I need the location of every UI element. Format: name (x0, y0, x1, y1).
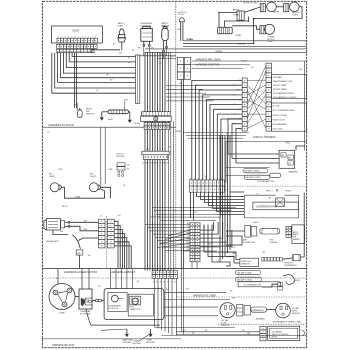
svg-text:GROUND: GROUND (146, 342, 155, 344)
connector wtr inlet (117, 163, 125, 166)
wire horizontals bottom (155, 327, 236, 329)
wires bundle to stair verticals crossing divider (166, 84, 199, 86)
section divider fz-door bottom (42, 126, 175, 128)
svg-text:TX1-FF TEMP: TX1-FF TEMP (273, 85, 288, 87)
svg-text:CAM-THERM COM: CAM-THERM COM (273, 80, 292, 83)
svg-text:COMP: COMP (59, 313, 66, 315)
svg-text:BK/WH: BK/WH (216, 51, 223, 53)
basepan pill (251, 307, 267, 312)
wires to damper (228, 153, 279, 155)
section divider horizontal main (42, 268, 306, 270)
svg-text:W2: W2 (171, 56, 174, 58)
connector icemaker strip (286, 226, 291, 237)
wire stair runs into display connector + down to strip (192, 80, 242, 180)
control board KEYB (51, 26, 102, 43)
pill W6 cord lower2 (235, 277, 261, 281)
wire labels left of display connector (233, 80, 242, 130)
wire verticals bottom middle (154, 279, 156, 328)
drain tube hook (283, 275, 294, 285)
amp connector pair (245, 225, 251, 237)
svg-text:W: W (153, 163, 155, 165)
svg-text:KEYB: KEYB (73, 30, 80, 33)
connector cabinet-wc row1 (152, 271, 177, 275)
wc-assy section bottom line (42, 338, 181, 340)
divider below harness labels (42, 277, 306, 279)
wire keyboard drops to mute switch area (74, 53, 76, 108)
connector cabinet-wc row2 (152, 275, 177, 279)
svg-text:B: B (174, 269, 175, 271)
board pin label row (56, 49, 94, 53)
svg-text:W4: W4 (186, 289, 189, 291)
wires right of auger connector (114, 221, 118, 268)
wires right of cabinet connector stepping (200, 222, 214, 230)
divider auger/cabinet (105, 216, 107, 269)
overload PTC relay assembly (79, 289, 92, 309)
svg-text:BK/WH: BK/WH (241, 61, 248, 63)
svg-text:B: B (167, 269, 168, 271)
box FZ thermistor bottom (238, 282, 280, 287)
wire compressor to ptc (75, 296, 79, 298)
svg-text:W4-HC2 DB: W4-HC2 DB (273, 119, 286, 121)
svg-text:B: B (164, 269, 165, 271)
divider alt power cord (218, 323, 307, 325)
plug alternate right (276, 303, 291, 318)
junction dots top-right (218, 12, 254, 45)
svg-text:GROUND: GROUND (123, 342, 132, 344)
cross bus horizontals in fz-door section (136, 55, 176, 57)
lamp FZ2 upper-left (267, 2, 277, 12)
svg-text:GN/YL: GN/YL (253, 222, 260, 224)
wire FZ1 loop (61, 187, 104, 198)
wire ptc bottom diagonal to base run (86, 309, 160, 325)
tiny labels left of cabinet connector (186, 223, 190, 251)
svg-text:YL: YL (187, 236, 189, 238)
svg-text:W6: W6 (224, 190, 227, 192)
terminal strip assembly (142, 112, 171, 116)
svg-text:TX3-FAN: TX3-FAN (273, 76, 282, 79)
box display labels group2 (272, 103, 307, 131)
svg-text:W3: W3 (146, 149, 149, 151)
svg-text:GN/YL: GN/YL (286, 191, 293, 193)
box fan motor FC bottom (128, 294, 153, 316)
thermal fuse diamond (276, 198, 285, 207)
svg-text:GROUND: GROUND (133, 343, 142, 345)
svg-text:BU/WH: BU/WH (216, 198, 223, 200)
terminal quick-connect right of ptc (92, 300, 96, 302)
svg-text:SERVICE: SERVICE (221, 325, 230, 327)
svg-text:W6-(B/P CORD): W6-(B/P CORD) (246, 177, 262, 179)
heater defrost (240, 258, 259, 266)
ground right of resistor (129, 112, 131, 119)
connector center mating strip labels (190, 178, 223, 180)
svg-text:TX4-DAMPER CLOSED: TX4-DAMPER CLOSED (273, 96, 297, 99)
connector cabinet col1 (190, 223, 195, 262)
svg-text:AUGER MTR: AUGER MTR (46, 240, 59, 243)
divider fz liner (176, 296, 307, 298)
crossing wires in display connector (247, 66, 266, 129)
labels above/below cabinet-wc connector (153, 269, 176, 271)
verticals from fz-door section to lights (100, 127, 102, 185)
svg-text:LT GR: LT GR (178, 14, 184, 16)
svg-text:W8: W8 (299, 69, 302, 71)
svg-text:W-BU: W-BU (237, 90, 242, 92)
motor damper (279, 150, 295, 168)
resistor defrost coil (261, 258, 282, 262)
svg-text:M3/BU: M3/BU (176, 131, 182, 133)
wire bundle left of evap section (219, 135, 221, 262)
outer border frame (42, 1, 306, 347)
wire cavity drops & cross bus (121, 49, 123, 50)
label W6 cord A pill (243, 169, 268, 173)
svg-text:PTC RELAY: PTC RELAY (80, 312, 91, 315)
box damper group outline (226, 141, 307, 183)
svg-text:W3-HC1 STAT: W3-HC1 STAT (273, 114, 288, 117)
wire coil legs (219, 12, 237, 27)
plug 115VAC left (220, 303, 235, 318)
svg-text:YL: YL (256, 193, 258, 195)
svg-text:R2/BN: R2/BN (187, 39, 193, 41)
svg-text:BK-YL: BK-YL (62, 206, 69, 208)
wire fan-out keyboard nested runs (52, 53, 136, 93)
connector center strip row2 (189, 186, 224, 192)
diagonal feed wires into cabinet connector (165, 233, 190, 239)
svg-text:B: B (156, 269, 157, 271)
svg-text:Y2/BN: Y2/BN (233, 15, 239, 17)
board pin numbers (58, 37, 96, 39)
svg-text:TX5-DAMPER OPEN: TX5-DAMPER OPEN (273, 92, 294, 95)
svg-text:LIGHT: LIGHT (117, 26, 124, 28)
box display labels group1 (272, 75, 307, 99)
svg-text:W6 (B/P CORD): W6 (B/P CORD) (244, 171, 259, 173)
wires exits below center strip (190, 192, 192, 218)
connector bits near drain (278, 283, 283, 286)
svg-text:W3: W3 (143, 163, 146, 165)
svg-text:FC MOTOR: FC MOTOR (108, 308, 119, 310)
wire loop evap fan (244, 195, 298, 218)
box automatic ice maker (292, 225, 305, 244)
lamp lower FZ (265, 24, 275, 34)
water valve connector stack (260, 326, 266, 340)
pill W6 cord lower1 (235, 270, 260, 274)
wire ref-liner right bus (191, 60, 306, 62)
wire divider to compressor top (57, 269, 59, 285)
svg-text:NOTE 8 LT GR: NOTE 8 LT GR (244, 3, 258, 5)
svg-text:W: W (132, 50, 134, 52)
wires bundle into cabinet connector (145, 223, 190, 225)
wires defrost (226, 252, 240, 260)
divider fz liner upper (225, 185, 307, 187)
pill FZ thermistor upper (270, 173, 281, 177)
board connector row 2 (57, 44, 97, 48)
wires cabinet connector to evap right (204, 225, 236, 253)
svg-text:YL: YL (160, 163, 162, 165)
svg-text:TEST J: TEST J (266, 191, 273, 193)
svg-text:CAPACITOR: CAPACITOR (130, 308, 141, 311)
connector center strip row1 (189, 180, 224, 186)
svg-text:LIGHT: LIGHT (292, 14, 299, 16)
svg-text:R2/WH: R2/WH (273, 12, 280, 14)
wire verticals right of bundle (167, 52, 169, 111)
box water valve solenoid (268, 326, 300, 340)
hook arrow right (302, 330, 305, 336)
svg-text:CONNECTOR: CONNECTOR (243, 242, 256, 244)
pin label texts (57, 51, 95, 53)
connector cabinet col2 (195, 223, 200, 262)
wires divider to condenser box (110, 269, 112, 289)
connector ref-liner col2 (184, 57, 190, 79)
svg-text:BASEPAN (L): BASEPAN (L) (252, 309, 264, 312)
svg-text:FZ THERMISTOR: FZ THERMISTOR (244, 285, 262, 287)
svg-text:B: B (171, 269, 172, 271)
svg-text:B: B (160, 269, 161, 271)
svg-text:HARNESS-FZ LINER: HARNESS-FZ LINER (193, 294, 216, 297)
wires evap section left connects (230, 191, 244, 193)
svg-text:B: B (153, 269, 154, 271)
svg-text:WTR INL: WTR INL (116, 156, 125, 158)
svg-text:Y7/BK: Y7/BK (75, 196, 81, 198)
connector display left col (242, 78, 247, 131)
svg-text:GN/YL: GN/YL (230, 247, 235, 249)
ground comp bottom (150, 329, 152, 333)
bus lines upper right to left (183, 40, 307, 42)
svg-text:ALTERNATE POWER CORD: ALTERNATE POWER CORD (273, 321, 302, 324)
wires top-right routing (244, 7, 260, 12)
wire stair lower three to damper (228, 119, 242, 154)
svg-text:W6: W6 (268, 198, 271, 200)
svg-text:DISPLAY HARNESS: DISPLAY HARNESS (253, 136, 276, 139)
svg-text:(Y): (Y) (288, 163, 291, 165)
labels under bar (143, 163, 170, 165)
wires compressor internal Y (58, 291, 67, 293)
wires below display connector going left (183, 132, 249, 134)
svg-text:BK/YE: BK/YE (272, 336, 278, 338)
svg-text:W6 (B/P CORD): W6 (B/P CORD) (237, 273, 252, 275)
svg-text:FZ THERMISTOR: FZ THERMISTOR (257, 181, 274, 183)
horizontals at 61-68 right (191, 64, 250, 66)
wires out condenser right (164, 291, 226, 293)
svg-text:HARNESS-WC ASSY: HARNESS-WC ASSY (52, 344, 75, 347)
svg-text:NOTE7 SW: NOTE7 SW (150, 216, 160, 218)
svg-text:12: 12 (100, 216, 102, 218)
motor auger MTR (47, 219, 61, 231)
svg-text:A-RIBBED: A-RIBBED (256, 318, 266, 321)
wire keyboard pin B right (92, 50, 120, 53)
svg-text:Y3: Y3 (74, 104, 76, 106)
ground base pan (126, 329, 128, 333)
svg-text:BT2-HEATER: BT2-HEATER (273, 123, 287, 126)
horizontals above cabinet connector (152, 207, 236, 209)
svg-text:HARNESS-CABINET: HARNESS-CABINET (111, 270, 136, 274)
lamp FZ2 upper-right (290, 2, 300, 12)
svg-text:TERMINATOR: TERMINATOR (284, 264, 297, 267)
svg-text:Y3/BN: Y3/BN (235, 35, 241, 37)
board connector row 1 (57, 38, 97, 43)
wire right edge vertical (304, 61, 306, 150)
svg-text:HARNESS-FZ DOOR: HARNESS-FZ DOOR (49, 123, 74, 127)
connector auger-cabinet left (98, 219, 105, 248)
svg-text:SWITCH: SWITCH (86, 113, 95, 115)
svg-text:NOTE7: NOTE7 (134, 123, 140, 125)
ribbon cable bus bar (136, 55, 140, 103)
wire diagonal comp ground (138, 334, 151, 342)
compressor COMP (49, 284, 75, 310)
coil winding component (218, 27, 233, 34)
drops below cabinet connector (191, 262, 193, 269)
svg-text:TX2-FZ TEMP: TX2-FZ TEMP (273, 89, 288, 91)
svg-text:W6-(B/P CORD): W6-(B/P CORD) (237, 280, 252, 282)
svg-text:DAMPER: DAMPER (289, 170, 298, 173)
condenser fan box (104, 289, 164, 320)
svg-text:W-R: W-R (124, 100, 129, 102)
wire bundle middle verticals (144, 52, 146, 270)
ground left of resistor (100, 116, 103, 121)
svg-text:HARNESS-AUGER MOTOR: HARNESS-AUGER MOTOR (64, 270, 97, 274)
svg-text:YL: YL (233, 95, 235, 97)
horizontals crossing at 245-262 (183, 246, 220, 248)
svg-text:LIGHT: LIGHT (90, 176, 97, 178)
svg-text:W1 L2 IN): W1 L2 IN) (273, 129, 283, 131)
wires into water valve (176, 331, 260, 333)
svg-text:Y2R/Y3R: Y2R/Y3R (237, 44, 246, 46)
svg-text:EVAPORATOR FAN: EVAPORATOR FAN (257, 206, 278, 209)
misc wire labels texture (47, 53, 302, 336)
box evaporator fan (253, 202, 299, 210)
basepan connector blocks (237, 304, 243, 316)
svg-text:LIGHT: LIGHT (49, 176, 56, 178)
defrost terminator (292, 255, 300, 261)
wire pair ref liner to water valve (180, 269, 182, 332)
connector ref-liner col1 (177, 57, 183, 79)
svg-text:W3: W3 (138, 48, 141, 50)
connector auger-cabinet right (108, 219, 115, 248)
svg-text:SERVICE: SERVICE (292, 313, 301, 315)
svg-text:SLEEVE: SLEEVE (270, 242, 278, 244)
svg-text:W: W (128, 58, 130, 60)
switch MUTE SW (79, 108, 81, 111)
wire basepan to alt plug (267, 309, 276, 311)
wire auger to connector (70, 221, 98, 223)
connector display right col (266, 63, 272, 131)
svg-text:HEATER: HEATER (241, 263, 250, 266)
resistor 3000 (108, 110, 129, 114)
svg-text:BT1-COMPRESSORS: BT1-COMPRESSORS (273, 110, 296, 112)
svg-text:MAKER: MAKER (293, 238, 300, 241)
capacitor interference filter (237, 11, 244, 20)
pvc sleeve (260, 228, 280, 234)
wires ptc feeds from divider (81, 269, 83, 290)
section divider vertical center (175, 1, 177, 268)
connector row below terminal (144, 123, 170, 126)
wire pair ref-liner down (180, 79, 182, 268)
svg-text:(L1 IN): (L1 IN) (273, 106, 280, 108)
switch lever CAP (72, 235, 80, 249)
svg-text:LIGHT: LIGHT (267, 41, 274, 43)
svg-text:M3: M3 (180, 83, 183, 85)
connector bundle bar (142, 151, 169, 155)
svg-text:RD(T): RD(T) (295, 280, 301, 282)
